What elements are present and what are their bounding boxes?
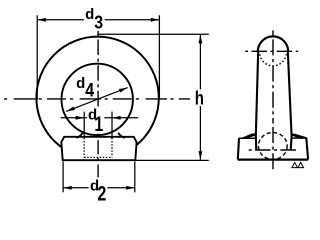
centerline horizontal (front view): [4, 98, 190, 100]
d1 label: [87, 107, 105, 131]
shank left line: [256, 51, 258, 150]
centerline horizontal at dome: [245, 50, 298, 52]
hidden thread hole bottom (dotted): [84, 156, 112, 158]
d2 extension line left: [62, 161, 64, 192]
d3 extension line right: [158, 15, 160, 100]
chamfer wedge right: [291, 134, 307, 139]
d2 dimension line: [63, 187, 135, 189]
d3 extension line left: [36, 15, 38, 100]
hidden hole arc (dotted): [260, 54, 286, 66]
hidden hub circle in base (dashed): [258, 133, 287, 160]
d3 arrow right: [151, 18, 160, 22]
h arrow bottom: [199, 151, 203, 160]
h label: [193, 89, 208, 106]
centerline horizontal in base: [249, 149, 299, 151]
svg-text:2: 2: [97, 182, 106, 206]
inner circle d4 (ring hole): [61, 64, 132, 135]
d2 extension line right: [134, 161, 136, 192]
d2 arrow left: [63, 186, 72, 190]
base bottom edge (side view): [238, 159, 308, 161]
hidden thread hole (dotted) right: [111, 138, 113, 157]
d4 dimension line (diagonal): [66, 88, 127, 112]
svg-text:3: 3: [94, 11, 103, 32]
centerline vertical (front view): [97, 31, 99, 177]
d3 arrow left: [37, 18, 46, 22]
surface finish triangles: [292, 162, 298, 167]
svg-text:d: d: [76, 75, 85, 92]
base right edge (side view): [306, 138, 308, 160]
chamfer wedge left: [239, 133, 257, 139]
svg-text:d: d: [85, 6, 94, 23]
d3 dimension line: [37, 19, 159, 21]
svg-text:4: 4: [85, 79, 94, 101]
outer circle d3 (ring outer edge): [36, 37, 158, 159]
h arrow top: [199, 35, 203, 44]
hidden thread hole (dotted) left: [83, 138, 85, 157]
centerline vertical (side view): [272, 30, 274, 171]
d4 arrow lower-left: [66, 107, 75, 112]
d1 extension bar left: [83, 112, 85, 138]
d2 arrow right: [126, 186, 135, 190]
d4 arrow upper-right: [119, 88, 128, 93]
base left edge (side view): [238, 138, 239, 159]
d1 arrow right (pointing left): [112, 116, 121, 120]
dome (ring top, side view): [258, 36, 288, 51]
d1 dimension line with outside arrows: [61, 117, 138, 119]
hub flare left: [76, 133, 82, 138]
h extension line top: [98, 33, 209, 35]
h extension line bottom: [136, 159, 209, 161]
base top edge left: [239, 137, 257, 139]
base top edge right: [291, 137, 306, 139]
base (nut body, front view): [61, 137, 136, 160]
d2 label: [89, 178, 108, 202]
d1 extension bar right: [111, 112, 113, 138]
d3 label: [84, 7, 105, 30]
svg-text:h: h: [195, 87, 204, 109]
h dimension line: [199, 35, 201, 160]
svg-text:1: 1: [94, 112, 103, 136]
shank right line: [288, 51, 292, 150]
d1 arrow left (pointing right): [76, 116, 85, 120]
hub flare right: [118, 133, 124, 138]
